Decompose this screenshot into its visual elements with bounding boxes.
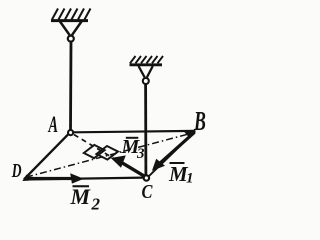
string 1 (to A)	[69, 42, 72, 131]
moment vector M2 (thick arrow along DC)	[27, 173, 84, 183]
right ceiling hatching	[130, 56, 163, 63]
svg-text:2: 2	[91, 195, 101, 213]
left support ring	[68, 36, 74, 42]
svg-text:3: 3	[136, 146, 145, 162]
D corner knot	[22, 175, 29, 182]
couple plane hatched ribbon	[84, 145, 118, 160]
plate edge DA	[24, 134, 69, 180]
plate edge AB	[74, 131, 196, 132]
diagonal AC (dashed)	[74, 135, 143, 176]
svg-text:1: 1	[186, 171, 194, 187]
hinge ring C	[144, 175, 149, 180]
hinge ring A	[68, 130, 73, 135]
right support bracket triangle	[139, 66, 153, 77]
right ceiling line	[130, 63, 163, 66]
svg-text:A: A	[48, 113, 58, 138]
diagonal DB (dash-dot)	[26, 133, 193, 177]
moment vector M3 (thick arrow C toward A)	[111, 155, 146, 178]
left ceiling hatching	[52, 9, 91, 20]
right support ring	[143, 78, 149, 84]
moment vector M1 (thick arrow B toward C)	[152, 131, 196, 171]
svg-text:M: M	[70, 184, 92, 209]
plate edge BC	[149, 131, 196, 176]
left support bracket triangle	[60, 22, 82, 36]
B corner knot	[184, 130, 196, 138]
svg-text:B: B	[193, 106, 206, 136]
string 2 (to C)	[144, 84, 147, 175]
svg-text:D: D	[11, 159, 22, 181]
plate edge CD	[24, 178, 144, 180]
svg-text:C: C	[142, 181, 154, 203]
left ceiling line	[51, 19, 88, 22]
